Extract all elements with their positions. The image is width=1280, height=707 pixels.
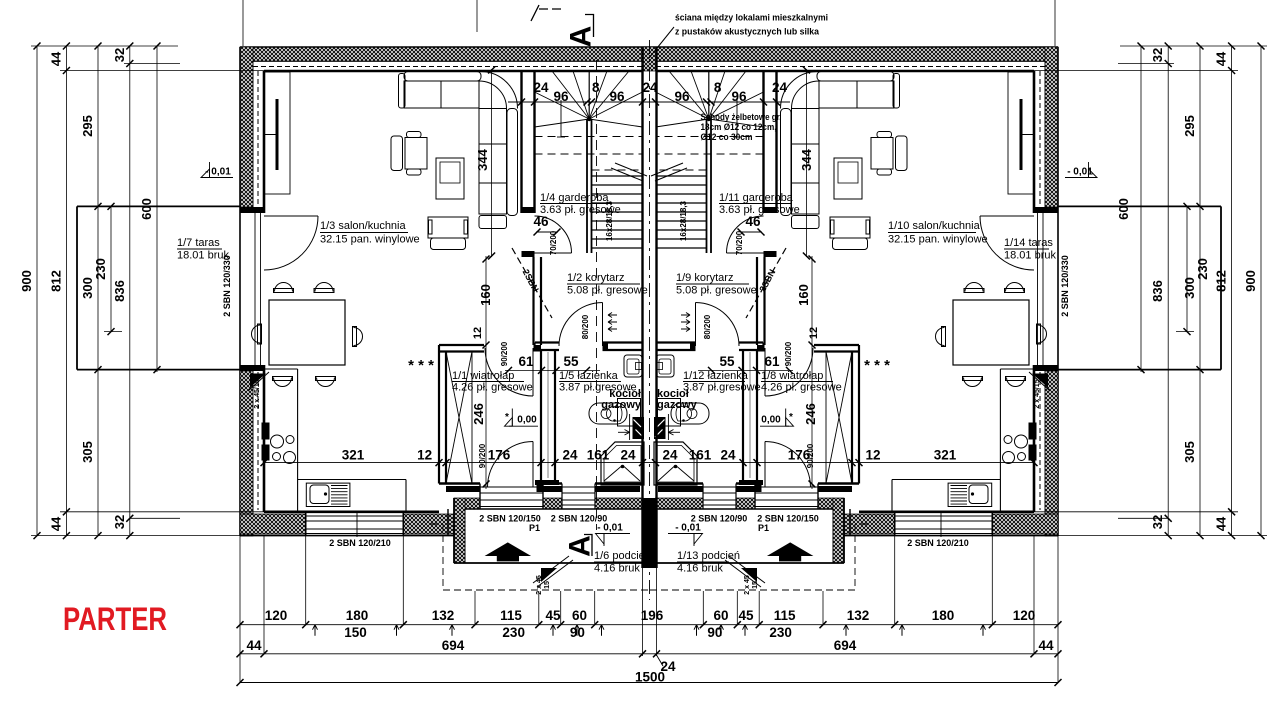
svg-text:115: 115 (774, 608, 796, 623)
right unit (mirrored copy) (649, 47, 1221, 590)
kitchen south wall (hatched) with window 180 (240, 535, 454, 537)
left exterior wall upper (hatched) (240, 47, 253, 207)
svg-text:1/2 korytarz: 1/2 korytarz (567, 272, 624, 284)
svg-text:32: 32 (112, 48, 127, 62)
entrance door swing arc (488, 442, 534, 488)
svg-text:1/8 wiatrołap: 1/8 wiatrołap (761, 370, 823, 382)
svg-text:44: 44 (48, 51, 63, 66)
gas boiler (633, 417, 645, 439)
garderoba door jambs (522, 207, 535, 213)
terrace door swing arc (264, 216, 318, 270)
stair-hall west wall 24cm (520, 71, 522, 213)
svg-text:15: 15 (752, 581, 759, 589)
svg-text:15: 15 (544, 581, 551, 589)
svg-text:3.87 pł.gresowe: 3.87 pł.gresowe (683, 382, 761, 394)
svg-text:*: * (505, 412, 509, 423)
svg-text:900: 900 (1243, 270, 1258, 292)
corner sofa horizontal cushions (404, 81, 479, 108)
svg-text:P1: P1 (758, 523, 769, 533)
corner sofa left armrest (399, 74, 406, 109)
svg-text:- 0,01: - 0,01 (205, 167, 231, 178)
bottom dim line row3 total 1500 (240, 682, 1058, 684)
svg-text:344: 344 (475, 148, 490, 170)
svg-text:1/1 wiatrołap: 1/1 wiatrołap (452, 370, 514, 382)
svg-text:3.63 pł. gresowe: 3.63 pł. gresowe (719, 204, 800, 216)
svg-text:836: 836 (1150, 280, 1165, 302)
extension line top x477 (476, 0, 478, 32)
garderoba 46 dim (536, 231, 558, 233)
bottom dim line row1 (240, 624, 1058, 626)
svg-text:96: 96 (731, 89, 747, 104)
svg-text:1/7 taras: 1/7 taras (177, 237, 220, 249)
svg-text:61: 61 (764, 354, 780, 369)
svg-text:161: 161 (689, 448, 712, 463)
wiatrolap closet cross (446, 352, 472, 484)
svg-text:1/13 podcień: 1/13 podcień (677, 550, 740, 562)
svg-text:46: 46 (745, 214, 761, 229)
svg-text:70/200: 70/200 (735, 230, 744, 255)
svg-text:12: 12 (865, 448, 880, 463)
porch steps break symbol (533, 556, 569, 583)
left exterior wall lower (hatched) (240, 371, 253, 536)
hall west wall lower 12cm (532, 257, 534, 345)
terrace glass door 120/330 in left wall (254, 213, 256, 365)
svg-text:3.63 pł. gresowe: 3.63 pł. gresowe (540, 204, 621, 216)
dim chain line 44/812/44 (65, 46, 67, 536)
stair winder rays (535, 92, 590, 119)
svg-text:gazowy: gazowy (657, 399, 698, 411)
kitchen counter (297, 369, 299, 512)
svg-text:1/11 garderoba: 1/11 garderoba (719, 192, 794, 204)
svg-text:96: 96 (609, 89, 625, 104)
svg-text:Schody żelbetowe gr.: Schody żelbetowe gr. (701, 112, 782, 122)
boiler cabinet (618, 399, 641, 427)
svg-text:24: 24 (720, 448, 736, 463)
corner sofa bottom pad (479, 216, 507, 229)
terrace outline (77, 205, 240, 207)
svg-text:12: 12 (472, 327, 484, 339)
svg-text:180: 180 (932, 608, 955, 623)
svg-text:4.26 pł. gresowe: 4.26 pł. gresowe (761, 382, 842, 394)
shower tray (601, 442, 644, 485)
svg-text:4.16 bruk: 4.16 bruk (594, 563, 640, 575)
corner sofa corner curve (481, 72, 518, 109)
svg-text:96: 96 (553, 89, 569, 104)
svg-text:2 x 45/15: 2 x 45/15 (254, 379, 261, 408)
24 label leader (657, 655, 664, 666)
svg-text:180: 180 (346, 608, 369, 623)
svg-text:2 x 45: 2 x 45 (744, 575, 751, 595)
svg-text:32.15 pan. winylowe: 32.15 pan. winylowe (888, 234, 988, 246)
svg-text:90/200: 90/200 (478, 443, 487, 468)
stair break line (611, 168, 643, 181)
svg-text:812: 812 (1214, 270, 1229, 292)
svg-text:24: 24 (772, 80, 788, 95)
hall/wiatrolap vertical dim 160+246 (485, 256, 487, 489)
dining table (269, 300, 345, 365)
svg-text:44: 44 (1214, 51, 1229, 66)
dim chain line 900 (36, 46, 38, 536)
porch pier (hatched) (454, 498, 465, 563)
svg-text:90: 90 (570, 625, 585, 640)
svg-text:24: 24 (562, 448, 578, 463)
terrace steps break symbol (250, 374, 266, 388)
svg-text:2 SBN 120/210: 2 SBN 120/210 (907, 538, 969, 548)
svg-text:344: 344 (799, 148, 814, 170)
svg-text:132: 132 (847, 608, 870, 623)
svg-text:61: 61 (518, 354, 534, 369)
svg-text:16x28/18,3: 16x28/18,3 (679, 200, 688, 241)
svg-text:PARTER: PARTER (63, 601, 167, 637)
wiatrolap level flag (509, 425, 538, 427)
svg-text:60: 60 (572, 608, 587, 623)
svg-text:246: 246 (471, 403, 486, 425)
dim chain line 295/300/305 (97, 46, 99, 536)
hall draft arrows (608, 314, 617, 316)
entry zone wall masonry bands (446, 486, 480, 492)
svg-text:1/9 korytarz: 1/9 korytarz (676, 272, 733, 284)
svg-text:836: 836 (112, 280, 127, 302)
svg-text:0,00: 0,00 (761, 415, 781, 426)
svg-text:160: 160 (478, 284, 493, 306)
wiatrolap door 90/200 swing arc (485, 348, 533, 396)
dining chairs (275, 283, 293, 292)
svg-text:2 SBN 120/150: 2 SBN 120/150 (757, 514, 819, 524)
svg-text:8: 8 (592, 80, 600, 95)
TV cabinet and TV (265, 72, 291, 194)
svg-text:2 SBN 120/330: 2 SBN 120/330 (222, 255, 232, 317)
stair spine wall (586, 119, 588, 253)
svg-text:1/5 łazienka: 1/5 łazienka (559, 370, 619, 382)
svg-text:A: A (565, 26, 598, 48)
svg-text:46: 46 (533, 214, 549, 229)
svg-text:55: 55 (563, 354, 579, 369)
svg-text:2 x 45: 2 x 45 (536, 575, 543, 595)
bottom dim line row2 (240, 653, 1058, 655)
svg-text:* * *: * * * (864, 357, 890, 374)
svg-text:44: 44 (246, 638, 262, 653)
svg-text:2 SBN 120/330: 2 SBN 120/330 (1060, 255, 1070, 317)
kitchen sink (306, 483, 350, 506)
svg-text:230: 230 (502, 625, 525, 640)
svg-text:90/200: 90/200 (806, 443, 815, 468)
svg-text:* * *: * * * (408, 357, 434, 374)
svg-text:18.01 bruk: 18.01 bruk (1004, 250, 1056, 262)
dim chain line 230 (110, 206, 112, 332)
top exterior wall (hatched) left half (240, 47, 649, 61)
wiatrolap/bathroom wall 24cm with flanges (540, 350, 542, 480)
svg-text:4.26 pł. gresowe: 4.26 pł. gresowe (452, 382, 533, 394)
bathroom window 60 (562, 486, 595, 488)
svg-text:2 x 45/15: 2 x 45/15 (1034, 379, 1041, 408)
svg-text:24: 24 (662, 448, 678, 463)
2SBN lintel dashed diagonal (512, 248, 552, 318)
porch level flag (597, 533, 630, 535)
svg-text:120: 120 (1013, 608, 1036, 623)
svg-text:44: 44 (48, 516, 63, 531)
svg-text:80/200: 80/200 (581, 314, 590, 339)
svg-text:812: 812 (48, 270, 63, 292)
entry zone hatched wall segments (465, 498, 480, 509)
side table (436, 158, 464, 199)
wiatrolap west wall 12cm (438, 345, 440, 484)
svg-text:44: 44 (1038, 638, 1054, 653)
svg-text:694: 694 (442, 638, 465, 653)
section mark A top (531, 5, 539, 21)
svg-text:600: 600 (1116, 198, 1131, 220)
building corner extension above (242, 0, 244, 46)
svg-text:z pustaków akustycznych lub si: z pustaków akustycznych lub silka (675, 27, 820, 38)
bathroom dim line 61/55 (505, 369, 600, 371)
kitchen wall sockets (262, 423, 270, 440)
svg-text:321: 321 (934, 448, 957, 463)
svg-text:5.08 pł. gresowe: 5.08 pł. gresowe (567, 285, 648, 297)
interior dim line 321/12/176/24/161/24 (264, 462, 649, 464)
svg-text:- 0,01: - 0,01 (1067, 167, 1093, 178)
stair treads (592, 175, 643, 177)
svg-text:694: 694 (834, 638, 857, 653)
svg-text:8: 8 (714, 80, 722, 95)
svg-text:1/3 salon/kuchnia: 1/3 salon/kuchnia (320, 220, 406, 232)
entry zone south wall inner face (439, 482, 480, 485)
svg-text:12: 12 (808, 327, 820, 339)
svg-text:- 0,01: - 0,01 (675, 523, 701, 534)
corner sofa horizontal back (404, 72, 481, 82)
svg-text:295: 295 (80, 115, 95, 137)
bottom dim row1 lower-chain arrows (314, 625, 316, 636)
porch floor edge (454, 562, 649, 564)
svg-text:32.15 pan. winylowe: 32.15 pan. winylowe (320, 234, 420, 246)
svg-text:45: 45 (545, 608, 561, 623)
svg-text:196: 196 (641, 608, 664, 623)
dim chain line 600 (156, 46, 158, 372)
garderoba door swing arc 70/200 (535, 216, 572, 253)
stair flight-above dashed lines (535, 136, 643, 138)
svg-text:60: 60 (713, 608, 728, 623)
svg-text:321: 321 (342, 448, 365, 463)
svg-text:gazowy: gazowy (601, 399, 642, 411)
svg-text:120: 120 (265, 608, 288, 623)
svg-text:4.16 bruk: 4.16 bruk (677, 563, 723, 575)
svg-text:1/12 łazienka: 1/12 łazienka (683, 370, 749, 382)
axis dashed centre line (649, 40, 651, 600)
right dim column (mirrored) (1034, 0, 1267, 539)
svg-text:*: * (789, 412, 793, 423)
svg-text:44: 44 (1214, 516, 1229, 531)
washbasin (624, 355, 642, 377)
svg-text:90/200: 90/200 (784, 341, 793, 366)
svg-text:1/6 podcień: 1/6 podcień (594, 550, 651, 562)
WC / vanity (589, 403, 627, 424)
svg-text:96: 96 (674, 89, 690, 104)
svg-text:70/200: 70/200 (549, 230, 558, 255)
svg-text:90/200: 90/200 (500, 341, 509, 366)
svg-text:230: 230 (1195, 258, 1210, 280)
porch roof overhang dashed outline (442, 524, 444, 590)
extension lines left (31, 45, 178, 47)
loveseat (428, 217, 468, 238)
svg-text:- 0,01: - 0,01 (597, 523, 623, 534)
svg-text:600: 600 (139, 198, 154, 220)
svg-text:45: 45 (738, 608, 754, 623)
section A-A trace dashed (596, 60, 598, 530)
svg-text:12: 12 (417, 448, 432, 463)
svg-text:ściana między lokalami mieszka: ściana między lokalami mieszkalnymi (675, 13, 828, 24)
terrace level flag (203, 177, 233, 179)
svg-text:160: 160 (796, 284, 811, 306)
window label leader (356, 512, 358, 537)
svg-text:305: 305 (80, 441, 95, 463)
svg-text:18.01 bruk: 18.01 bruk (177, 250, 229, 262)
corner sofa vertical back (507, 109, 518, 216)
svg-text:90: 90 (707, 625, 722, 640)
svg-text:1500: 1500 (635, 670, 665, 685)
svg-text:32: 32 (1150, 515, 1165, 529)
kitchen hob (271, 435, 284, 448)
svg-text:900: 900 (19, 270, 34, 292)
svg-text:24: 24 (620, 448, 636, 463)
svg-text:1/14 taras: 1/14 taras (1004, 237, 1053, 249)
svg-text:24: 24 (642, 80, 658, 95)
svg-text:80/200: 80/200 (703, 314, 712, 339)
bathroom north wall with door 80/200 (535, 341, 559, 343)
svg-text:55: 55 (719, 354, 735, 369)
party wall leader line (649, 27, 674, 58)
bottom extension lines (239, 536, 241, 683)
svg-text:150: 150 (344, 625, 367, 640)
svg-text:176: 176 (488, 448, 511, 463)
svg-text:Ø12 co 30cm: Ø12 co 30cm (701, 132, 753, 142)
svg-text:2 SBN 120/210: 2 SBN 120/210 (329, 538, 391, 548)
svg-text:24: 24 (533, 80, 549, 95)
left wall cap above terrace door (240, 207, 264, 213)
entrance door P1 threshold (480, 486, 543, 488)
svg-text:18cm Ø12 co 12cm,: 18cm Ø12 co 12cm, (701, 122, 777, 132)
svg-text:305: 305 (1182, 441, 1197, 463)
armchair (391, 136, 403, 171)
party wall between units (641, 47, 643, 568)
svg-text:161: 161 (587, 448, 610, 463)
entry arrow (485, 542, 531, 561)
svg-text:32: 32 (112, 515, 127, 529)
svg-text:115: 115 (500, 608, 522, 623)
svg-text:230: 230 (93, 258, 108, 280)
svg-text:1/10 salon/kuchnia: 1/10 salon/kuchnia (888, 220, 981, 232)
svg-text:2 SBN 120/150: 2 SBN 120/150 (479, 514, 541, 524)
svg-text:1/4 garderoba: 1/4 garderoba (540, 192, 609, 204)
left wall cap below terrace door (240, 365, 264, 371)
dim chain line 32/836/32 (129, 46, 131, 536)
svg-text:132: 132 (432, 608, 455, 623)
wiatrolap north wall 12cm (439, 344, 484, 346)
corner sofa vertical cushions (479, 109, 507, 215)
svg-text:0,00: 0,00 (517, 415, 537, 426)
stair dim line 24/96/8/96 (508, 101, 649, 103)
svg-text:230: 230 (769, 625, 792, 640)
svg-text:246: 246 (803, 403, 818, 425)
kitchen window 180 frame (306, 515, 404, 517)
sofa dim 344 line (491, 69, 493, 257)
svg-text:5.08 pł. gresowe: 5.08 pł. gresowe (676, 285, 757, 297)
svg-text:P1: P1 (529, 523, 540, 533)
svg-text:32: 32 (1150, 48, 1165, 62)
bathroom door swing arc (559, 303, 603, 347)
svg-text:295: 295 (1182, 115, 1197, 137)
